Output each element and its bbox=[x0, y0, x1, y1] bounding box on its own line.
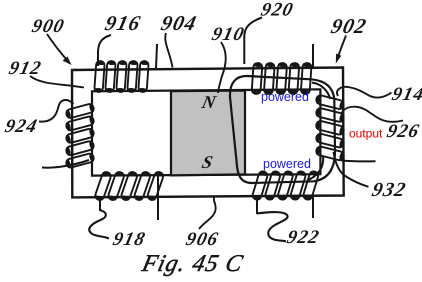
svg-text:920: 920 bbox=[259, 0, 296, 20]
svg-text:916: 916 bbox=[103, 11, 144, 35]
svg-text:926: 926 bbox=[385, 121, 422, 142]
svg-text:910: 910 bbox=[210, 24, 247, 45]
svg-text:900: 900 bbox=[30, 16, 67, 37]
svg-text:powered: powered bbox=[261, 90, 309, 104]
svg-text:powered: powered bbox=[263, 157, 311, 171]
svg-text:914: 914 bbox=[390, 84, 422, 105]
svg-text:924: 924 bbox=[3, 116, 40, 137]
svg-text:902: 902 bbox=[329, 14, 370, 38]
svg-text:906: 906 bbox=[184, 229, 221, 250]
svg-text:922: 922 bbox=[285, 227, 322, 248]
svg-text:912: 912 bbox=[7, 58, 44, 79]
svg-text:918: 918 bbox=[111, 229, 148, 250]
svg-text:Fig. 45 C: Fig. 45 C bbox=[139, 250, 246, 277]
svg-text:904: 904 bbox=[159, 11, 200, 35]
svg-text:932: 932 bbox=[370, 179, 409, 201]
svg-text:output: output bbox=[349, 127, 383, 141]
